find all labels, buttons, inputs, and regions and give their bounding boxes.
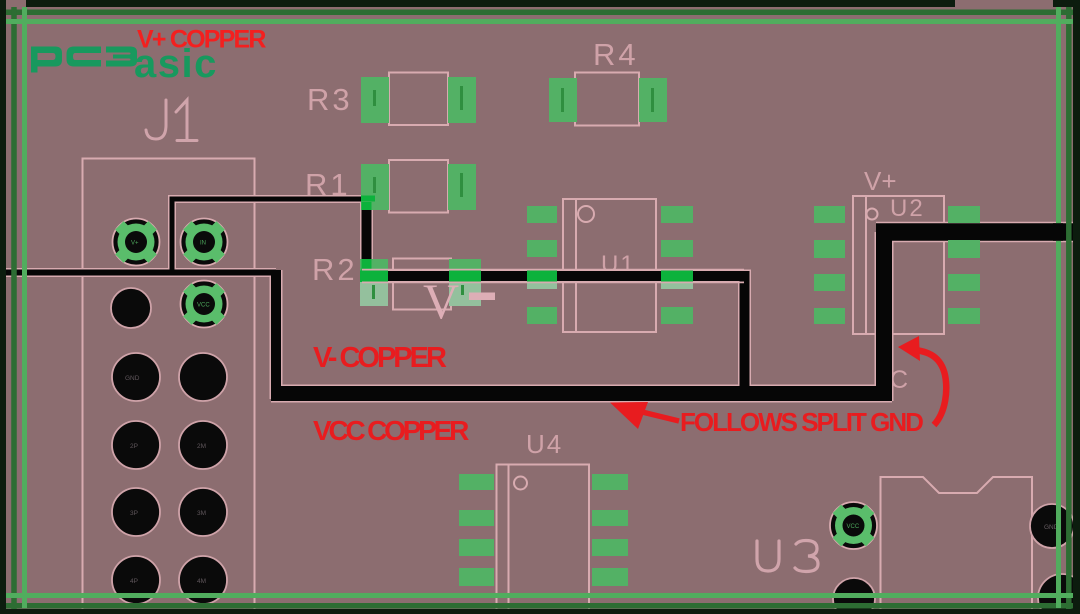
svg-text:VCC: VCC xyxy=(197,303,210,309)
red annotations xyxy=(137,26,923,447)
wire V+ split outline xyxy=(172,199,366,272)
resistor R4 pads xyxy=(549,78,577,122)
J1 pin hole labels xyxy=(125,375,206,585)
unplated hole xyxy=(111,288,151,328)
via VCC bottom xyxy=(830,502,877,549)
svg-text:IN: IN xyxy=(200,241,206,247)
resistor R1 body xyxy=(389,160,448,213)
U1 right pads xyxy=(661,206,693,223)
U2 right pads xyxy=(948,206,980,223)
svg-text:FOLLOWS SPLIT GND: FOLLOWS SPLIT GND xyxy=(680,407,923,437)
IC U4 body xyxy=(497,465,590,610)
U3 pin hole bottom xyxy=(833,578,875,614)
resistor R1 pads xyxy=(361,164,389,210)
svg-text:4M: 4M xyxy=(197,578,206,585)
svg-text:3P: 3P xyxy=(130,510,138,517)
vivid pad-over-trace bands xyxy=(360,196,693,283)
wire V- split: R1 pad down to R2 and across U1 xyxy=(367,203,745,390)
V+ trace over light green frame xyxy=(1053,223,1063,241)
wire V+ plane horizontal xyxy=(0,270,276,276)
svg-text:R2: R2 xyxy=(312,252,358,287)
U1 left pads xyxy=(527,206,557,223)
svg-text:2P: 2P xyxy=(130,443,138,450)
wire from R1 to V+ plane xyxy=(172,199,366,272)
resistor R2 body xyxy=(393,259,451,310)
svg-text:3M: 3M xyxy=(197,510,206,517)
trace outline over pads xyxy=(362,270,744,283)
U2 left pads xyxy=(814,206,845,223)
pale pad bands below trace xyxy=(360,282,693,306)
trace outlines (pink pass) xyxy=(0,199,1080,401)
GND pin hole right xyxy=(1030,504,1074,548)
svg-text:VCC: VCC xyxy=(847,524,860,530)
label J1 xyxy=(146,100,197,141)
via IN xyxy=(181,219,228,266)
resistor R4 body xyxy=(575,73,639,126)
svg-text:VCC COPPER: VCC COPPER xyxy=(313,415,469,446)
svg-text:V+: V+ xyxy=(864,166,897,196)
resistor R3 body xyxy=(389,73,448,126)
annotation arrow left xyxy=(610,402,679,429)
resistor R2 pads xyxy=(360,259,388,306)
svg-text:U2: U2 xyxy=(890,195,925,222)
SMD pads layer xyxy=(360,77,980,586)
svg-text:GND: GND xyxy=(125,375,140,382)
IC U3 outline xyxy=(881,477,1033,609)
svg-text:2M: 2M xyxy=(197,443,206,450)
connector J1 outline xyxy=(83,159,255,614)
traces (black pass) xyxy=(0,199,1080,401)
svg-text:U4: U4 xyxy=(526,429,563,459)
PCBasic logo xyxy=(31,42,218,86)
label U3 xyxy=(757,541,818,572)
silkscreen layer xyxy=(83,73,1033,614)
resistor R3 pads xyxy=(361,77,389,123)
op-amp U1 body xyxy=(563,199,656,332)
wire V- split outline xyxy=(367,203,745,390)
wire VCC split GND boundary xyxy=(271,270,281,399)
svg-text:V+ COPPER: V+ COPPER xyxy=(137,26,266,54)
J1 pin holes xyxy=(112,353,227,604)
pin hole bottom right corner xyxy=(1038,574,1080,614)
svg-text:V+: V+ xyxy=(131,241,139,247)
annotation arrowhead curved xyxy=(898,336,920,361)
svg-text:R3: R3 xyxy=(307,82,353,117)
via VCC xyxy=(181,281,228,328)
annotation arrow curved xyxy=(911,350,946,426)
svg-text:V- COPPER: V- COPPER xyxy=(313,342,447,374)
silkscreen reference designators xyxy=(146,37,925,572)
svg-text:R4: R4 xyxy=(593,37,639,72)
U4 left pads xyxy=(459,474,494,490)
via V+ xyxy=(113,219,160,266)
svg-text:4P: 4P xyxy=(130,578,138,585)
op-amp U2 body xyxy=(853,196,944,334)
U4 right pads xyxy=(592,474,628,490)
big V- net label xyxy=(423,273,495,329)
svg-text:V: V xyxy=(423,273,459,329)
pad number marks xyxy=(372,86,654,299)
wire VCC split outline xyxy=(270,270,283,399)
